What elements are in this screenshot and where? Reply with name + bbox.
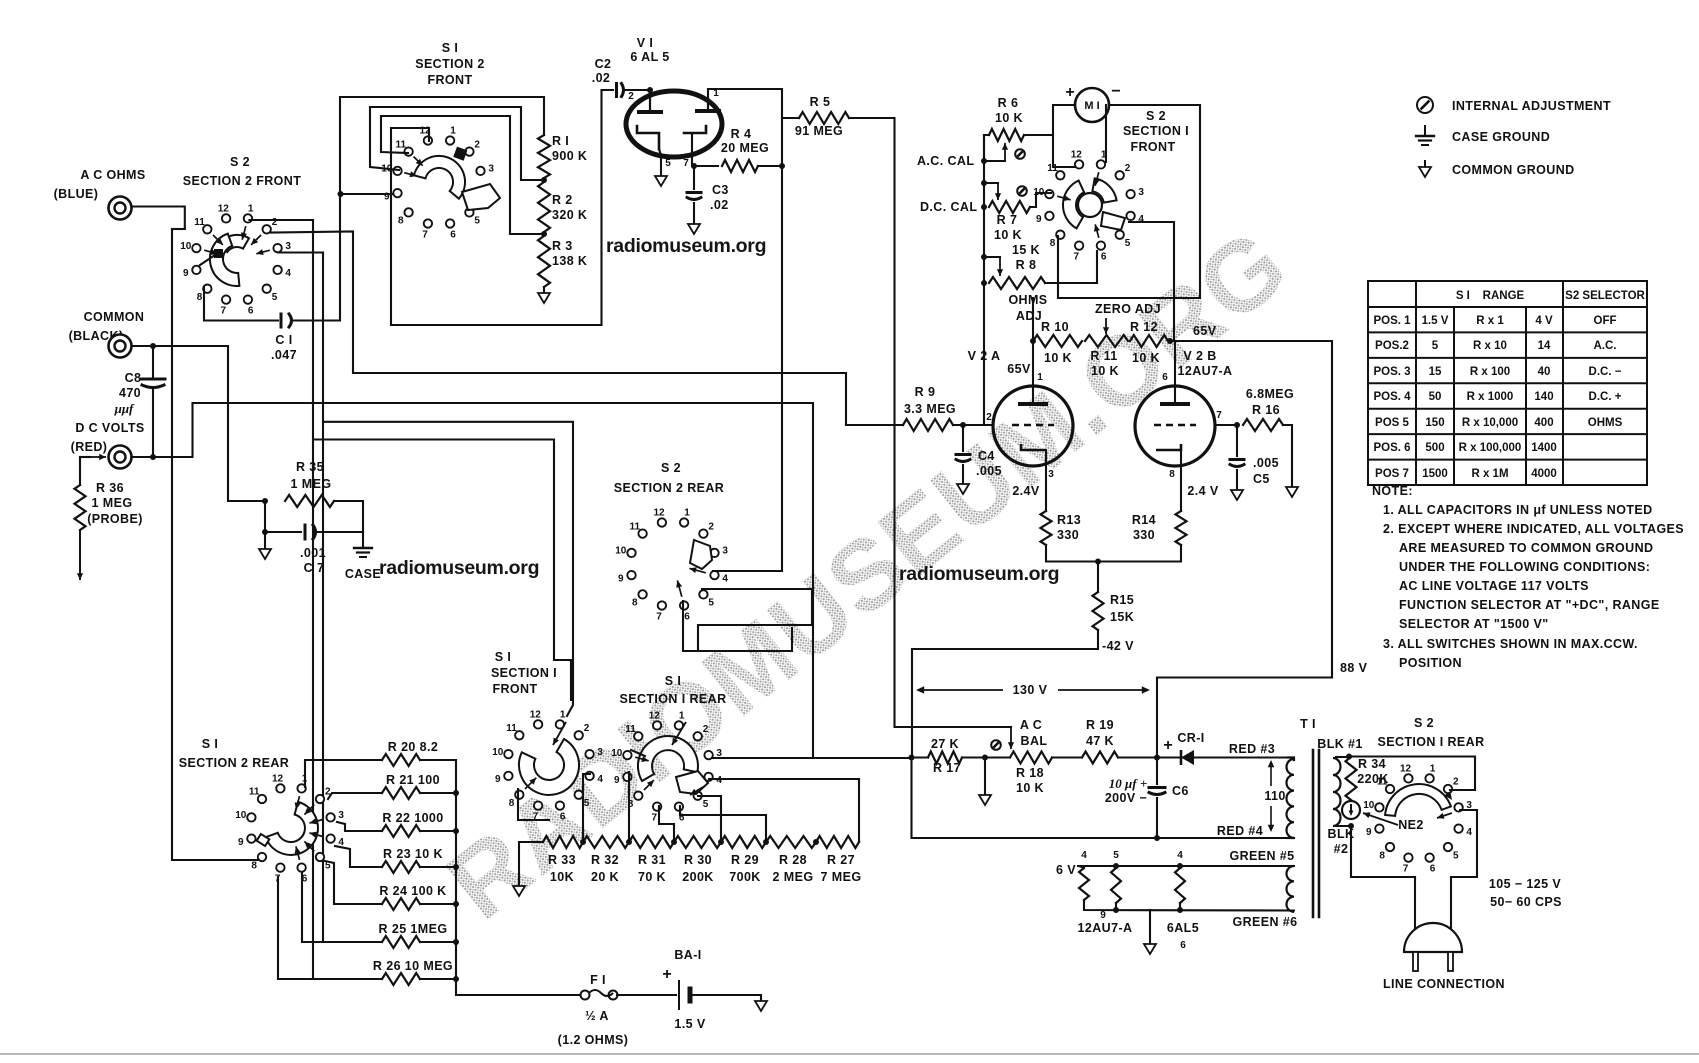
svg-text:.005: .005 [1253,456,1279,470]
svg-text:C8: C8 [125,371,142,385]
wire ladder right stub 831 [420,830,456,832]
svg-text:C5: C5 [1253,472,1270,486]
svg-text:138 K: 138 K [552,254,587,268]
svg-text:R13: R13 [1057,513,1081,527]
svg-text:4: 4 [1138,214,1144,225]
wire S2s2f contact 1 to bus [250,219,314,221]
svg-text:M I: M I [1084,100,1099,112]
svg-text:R 19: R 19 [1086,718,1114,732]
svg-text:150: 150 [1425,417,1444,429]
arrow S2s2r contact 6 [676,580,682,596]
svg-text:S I: S I [495,650,511,664]
junction C8 top [150,343,156,349]
junction ladder right 793 [453,790,459,796]
svg-text:−: − [1111,83,1120,100]
wire plug neck left [1414,877,1416,928]
wire V2B plate [1174,341,1176,404]
junction heater V1 top [1177,863,1183,869]
wire R26 left [278,877,382,979]
junction R17-R18 [982,755,988,761]
wire ladder right stub 867 [420,866,456,868]
svg-text:9: 9 [618,574,624,585]
wire AC-DC rail [983,135,985,425]
svg-text:POS 7: POS 7 [1375,468,1409,480]
svg-text:radiomuseum.org: radiomuseum.org [379,557,539,579]
svg-text:A C OHMS: A C OHMS [80,168,145,182]
svg-text:3: 3 [1138,187,1144,198]
resistor R18 AC BAL [1010,752,1052,764]
wire V1 pin1 to R5 frame [708,89,782,166]
svg-text:R 6: R 6 [998,96,1019,110]
wire bottom return bus [912,758,1289,839]
svg-text:R 27: R 27 [827,853,855,867]
resistor R28 [766,836,816,848]
heater filament V2 (b) [1111,868,1121,903]
junction heater V1 bottom [1177,907,1183,913]
wire R17 node to ground [984,758,986,796]
wire C6 stem [1156,758,1158,785]
junction V1 pin7 [691,163,697,169]
diode CR-1 [1181,750,1194,765]
svg-text:9: 9 [614,775,620,786]
svg-text:6: 6 [450,230,456,241]
svg-text:6: 6 [1430,864,1436,875]
svg-text:3.3 MEG: 3.3 MEG [904,402,956,416]
svg-text:11: 11 [506,723,517,734]
arrow S1s2r contact 6 [295,846,301,860]
svg-text:SECTION I REAR: SECTION I REAR [1378,735,1485,749]
svg-text:6 AL 5: 6 AL 5 [630,50,669,64]
tube V2B grid [1154,424,1196,427]
wire R6 wiper stem [984,160,1005,162]
svg-text:S I: S I [202,737,218,751]
svg-text:.047: .047 [271,348,297,362]
wire R21 left [328,793,382,799]
svg-text:POSITION: POSITION [1399,656,1462,670]
wire S2s1f contact 8 drop [1057,236,1059,298]
tube V2B envelope [1135,386,1215,466]
svg-text:3. ALL SWITCHES SHOWN IN MAX.C: 3. ALL SWITCHES SHOWN IN MAX.CCW. [1383,637,1638,651]
svg-text:BA-I: BA-I [674,948,701,962]
svg-text:110: 110 [1264,789,1285,803]
svg-text:CASE GROUND: CASE GROUND [1452,130,1550,144]
wire R8 wiper stem [984,256,1000,258]
svg-text:9: 9 [1036,214,1042,225]
wire R17 right [962,756,1010,758]
wire S2s2f contact 2 to R9 bus [271,232,846,426]
resistor R16 [1243,419,1283,431]
wire V2B grid out [1215,424,1237,426]
wire big box bottom [391,90,613,325]
meter M1 [1075,88,1109,122]
wire S1s2f box B left [370,107,399,170]
wire R13 bottom [1046,545,1181,562]
svg-text:S I RANGE: S I RANGE [1456,290,1525,302]
arrow S1s2r contact 1 [295,796,301,810]
transformer T1 primary winding RED [1286,759,1294,838]
wire -42V run [912,630,1098,758]
svg-text:-42 V: -42 V [1102,639,1134,653]
junction R2-R3 [541,231,547,237]
wire V2A plate [1032,341,1034,404]
tube V1 left cathode [637,126,659,149]
svg-text:BAL: BAL [1021,734,1048,748]
arrow S1s2f contact 11 [414,157,423,166]
junction contact9 feed [338,191,344,197]
svg-text:3: 3 [597,747,603,758]
svg-text:1: 1 [450,125,456,136]
svg-text:15 K: 15 K [1012,243,1040,257]
resistor R5 [799,112,849,124]
svg-text:R 4: R 4 [731,127,752,141]
arrow S1s1r contact 10 [635,756,649,762]
wire S1s2f nested box B [370,107,544,180]
wire ladder right stub 942 [420,941,456,943]
wire C6 bottom [1156,798,1158,838]
wire R35 left drop [264,501,266,532]
wire R19 to CR1 node [1118,756,1157,758]
wiper S2 section 2 rear [690,540,712,569]
svg-text:CR-I: CR-I [1177,731,1204,745]
arrow S2s1f contact 1 [1094,172,1100,186]
svg-text:UNDER THE FOLLOWING CONDITIONS: UNDER THE FOLLOWING CONDITIONS: [1399,560,1650,574]
svg-text:R 7: R 7 [997,213,1018,227]
wire R25 left [324,941,382,943]
svg-text:11: 11 [194,217,205,228]
table text [1373,290,1645,480]
svg-text:R x 1: R x 1 [1476,315,1504,327]
bottom rule [0,1053,1699,1055]
svg-text:COMMON GROUND: COMMON GROUND [1452,163,1575,177]
rotary switch S1 section 1 rear [611,710,722,823]
svg-text:1500: 1500 [1422,468,1448,480]
svg-text:R x 10: R x 10 [1473,340,1507,352]
svg-text:65V: 65V [1193,324,1217,338]
wire bus y421 to S1s1f [323,422,573,716]
svg-text:A.C.: A.C. [1594,340,1617,352]
junction R16-C5 [1234,422,1240,428]
wire RED4 [1288,837,1294,839]
resistor R36 [75,485,86,530]
svg-text:10: 10 [492,747,504,758]
svg-text:FUNCTION SELECTOR AT "+DC", RA: FUNCTION SELECTOR AT "+DC", RANGE [1399,598,1660,612]
svg-text:S 2: S 2 [1414,716,1434,730]
wire C8 stem [152,346,154,379]
svg-text:14: 14 [1538,340,1551,352]
wire R7 wiper stem [984,182,998,184]
svg-text:2: 2 [584,723,590,734]
svg-text:900 K: 900 K [552,149,587,163]
svg-text:R 20 8.2: R 20 8.2 [388,740,438,754]
junction BLK1 [1346,754,1352,760]
svg-text:R 26 10 MEG: R 26 10 MEG [373,959,453,973]
svg-text:FRONT: FRONT [427,73,472,87]
svg-text:R x 100: R x 100 [1470,366,1510,378]
wire R36 top [80,456,90,458]
junction ladder right 942 [453,939,459,945]
tube V2A grid [1012,424,1054,427]
svg-text:+: + [1065,84,1074,101]
wire heater bottom bus [1084,900,1294,911]
wire F1 to BA1 [617,994,676,996]
svg-text:R 8: R 8 [1016,258,1037,272]
wire BA1 to ground [692,995,761,1001]
wire ladder right stub 793 [420,792,456,794]
svg-text:1: 1 [679,710,685,721]
wire S2s2f right bus down [312,220,314,979]
common ground below R17 [979,795,991,805]
wire M1 right frame [1058,105,1200,298]
wiper S1 section 2 rear [257,802,318,855]
svg-text:FRONT: FRONT [492,682,537,696]
svg-text:4: 4 [1081,850,1087,861]
resistor R14 [1176,511,1187,545]
arrow S1s1f contact 8 [525,778,536,789]
wire S2s2r contact6 drop [683,601,792,651]
wiper S2 section 1 front [1063,178,1125,230]
svg-text:500: 500 [1425,442,1444,454]
junction R8 wiper rail [981,254,987,260]
svg-text:GREEN #5: GREEN #5 [1229,849,1294,863]
common ground below C5 [1231,490,1243,500]
svg-text:INTERNAL ADJUSTMENT: INTERNAL ADJUSTMENT [1452,99,1611,113]
lamp NE2 [1342,801,1360,819]
svg-text:8: 8 [509,798,515,809]
tube V2B cathode [1156,444,1181,450]
svg-text:88 V: 88 V [1340,661,1368,675]
svg-text:2: 2 [474,139,480,150]
svg-text:6: 6 [684,612,690,623]
svg-text:R 31: R 31 [638,853,666,867]
junction 65V node [1167,338,1173,344]
svg-text:COMMON: COMMON [84,310,145,324]
wire R36 stem [79,457,81,485]
wiper S1 section 2 front [414,147,500,210]
wire R33 left to ground [519,842,543,886]
arrow R36 probe end [77,530,83,580]
svg-text:11: 11 [396,139,407,150]
svg-text:15K: 15K [1110,610,1134,624]
wire ladder right stub 904 [420,903,456,905]
wire C7 left [265,531,301,533]
svg-text:S 2: S 2 [661,461,681,475]
svg-text:radiomuseum.org: radiomuseum.org [899,563,1059,585]
svg-text:10: 10 [180,241,192,252]
junction heater 5 top [1113,863,1119,869]
svg-text:320 K: 320 K [552,208,587,222]
wire M1 left [1053,105,1077,167]
junction R35 left [262,498,268,504]
resistor R33 [543,836,583,848]
battery BA-1 [679,981,690,1009]
wire s1r contact5 drop [698,796,721,841]
wire plug neck right [1450,877,1452,928]
svg-text:2 MEG: 2 MEG [773,870,814,884]
wire S1s1f contact 8 stub [518,789,549,820]
resistor R6 [989,129,1024,141]
svg-text:C3: C3 [712,183,729,197]
svg-text:6: 6 [1101,252,1107,263]
junction C8 bottom [150,454,156,460]
arrow S1s2r contact 2 [304,805,314,815]
wire RED3 [1288,758,1294,761]
svg-text:9: 9 [183,268,189,279]
svg-text:D.C. −: D.C. − [1589,366,1622,378]
svg-text:.02: .02 [592,71,611,85]
svg-text:R 9: R 9 [915,385,936,399]
legend common ground stem [1424,160,1426,167]
tube V2A plate bar [1018,402,1048,406]
wire ladder right bus [456,760,581,995]
legend case ground symbol [1424,126,1426,136]
svg-text:9: 9 [1366,827,1372,838]
svg-text:5: 5 [1453,850,1459,861]
transformer T1 line winding BLK [1333,758,1341,826]
svg-text:2: 2 [986,412,992,423]
svg-text:R 35: R 35 [296,460,324,474]
resistor R25 [382,936,420,948]
resistor R26 [382,973,420,985]
svg-text:70 K: 70 K [638,870,666,884]
svg-text:POS 5: POS 5 [1375,417,1409,429]
svg-text:2: 2 [1125,163,1131,174]
svg-text:4: 4 [1177,850,1183,861]
svg-text:4: 4 [1466,827,1472,838]
wire R24 left [325,861,382,904]
svg-text:R 29: R 29 [731,853,759,867]
arrow S1s2r contact 4 [309,832,323,838]
wire s1r contact9 drop [628,772,630,841]
svg-text:R x 10,000: R x 10,000 [1462,417,1518,429]
arrow S1s1r contact 1 [672,722,686,745]
arrow S1s1r wiper tab [690,787,703,795]
svg-text:R 18: R 18 [1016,766,1044,780]
svg-text:6: 6 [560,812,566,823]
resistor R29 [721,836,766,848]
svg-text:C2: C2 [595,57,612,71]
svg-text:.005: .005 [976,464,1002,478]
svg-text:C 7: C 7 [304,561,325,575]
svg-text:3: 3 [338,810,344,821]
resistor R15 [1093,592,1104,630]
svg-text:50: 50 [1429,391,1442,403]
svg-text:4: 4 [716,775,722,786]
resistor R1 [538,135,550,178]
svg-text:R 16: R 16 [1252,403,1280,417]
svg-text:R 22 1000: R 22 1000 [382,811,443,825]
wire R6 left [984,135,989,161]
wire S2s1f contact 4 to 65V rail [1129,222,1174,341]
junction AC CAL [981,158,987,164]
line plug [1404,923,1462,971]
wire C3 stem [693,166,695,189]
svg-text:2: 2 [703,724,709,735]
wire R9 left [846,424,903,426]
svg-text:POS. 4: POS. 4 [1373,391,1411,403]
arrow S2s1f contact 10 [1057,195,1071,201]
svg-text:15: 15 [1429,366,1442,378]
wire S1s2f nested box C [381,116,544,234]
junction R17 left node [909,755,915,761]
svg-text:47 K: 47 K [1086,734,1114,748]
arrow S1s1f contact 1 [553,722,566,745]
svg-text:(PROBE): (PROBE) [87,512,143,526]
svg-text:7: 7 [656,612,662,623]
junction R row 1 [580,839,586,845]
wire R20 left [305,760,382,787]
svg-text:200K: 200K [682,870,713,884]
svg-text:5: 5 [1125,238,1131,249]
resistor R8 [989,277,1045,289]
svg-text:(RED): (RED) [71,440,108,454]
svg-text:R 11: R 11 [1090,349,1117,363]
svg-text:10 K: 10 K [1132,351,1160,365]
svg-text:2.4V: 2.4V [1012,484,1040,498]
svg-text:R 10: R 10 [1041,320,1069,334]
svg-text:OHMS: OHMS [1588,417,1623,429]
wire C7 right [317,531,363,533]
legend common ground arrow [1419,167,1431,177]
wire J3 to DC bus [132,403,814,457]
svg-text:8: 8 [1050,238,1056,249]
resistor R4 [722,160,758,172]
arrow S2s1r contact 3 [1437,813,1452,819]
svg-text:SECTION 2: SECTION 2 [415,57,485,71]
legend case ground bars [1416,136,1434,145]
svg-text:R 3: R 3 [552,239,573,253]
svg-text:400: 400 [1534,417,1553,429]
tube V2A envelope [993,386,1073,466]
rotary switch S2 section 1 rear [1363,763,1472,874]
svg-text:6: 6 [1180,940,1186,951]
wire R5 right long drop [849,118,1011,727]
case ground symbol [354,548,372,557]
svg-text:65V: 65V [1007,362,1031,376]
jack J3 DC-VOLTS (RED) [109,446,132,469]
wire 65V rail right [1170,341,1332,678]
wire box S2s2f left / long left bus [172,229,259,860]
junction R4-R5 [779,163,785,169]
capacitor C4 [956,455,970,462]
junction ladder right 979 [453,976,459,982]
wire R7 to contact 10 [1030,193,1051,207]
wire s1r contact7 drop [659,806,674,841]
svg-text:S 2: S 2 [1146,109,1166,123]
svg-text:NE2: NE2 [1398,818,1424,832]
svg-text:4000: 4000 [1531,468,1557,480]
svg-text:5: 5 [474,216,480,227]
svg-text:1: 1 [1430,763,1436,774]
dimension 130V line [916,686,1150,693]
common ground battery [755,1001,767,1011]
wire 88V drop [1156,678,1158,758]
wire CR1 left [1157,756,1181,758]
capacitor C8 [141,379,165,388]
junction R row 4 [718,839,724,845]
wire R17 left [912,756,929,758]
common ground below R35 [259,549,271,559]
tube V1 right diode plate [697,98,719,111]
svg-text:S I: S I [665,674,681,688]
wire C2 to V1 grid [625,89,650,91]
wire box S2s2f top [172,228,185,230]
svg-text:2: 2 [708,521,714,532]
svg-text:330: 330 [1057,528,1079,542]
wiper S1 section 1 front [519,739,579,795]
wire 88V [1157,676,1332,678]
svg-text:3: 3 [285,241,291,252]
capacitor C5 [1230,460,1244,467]
